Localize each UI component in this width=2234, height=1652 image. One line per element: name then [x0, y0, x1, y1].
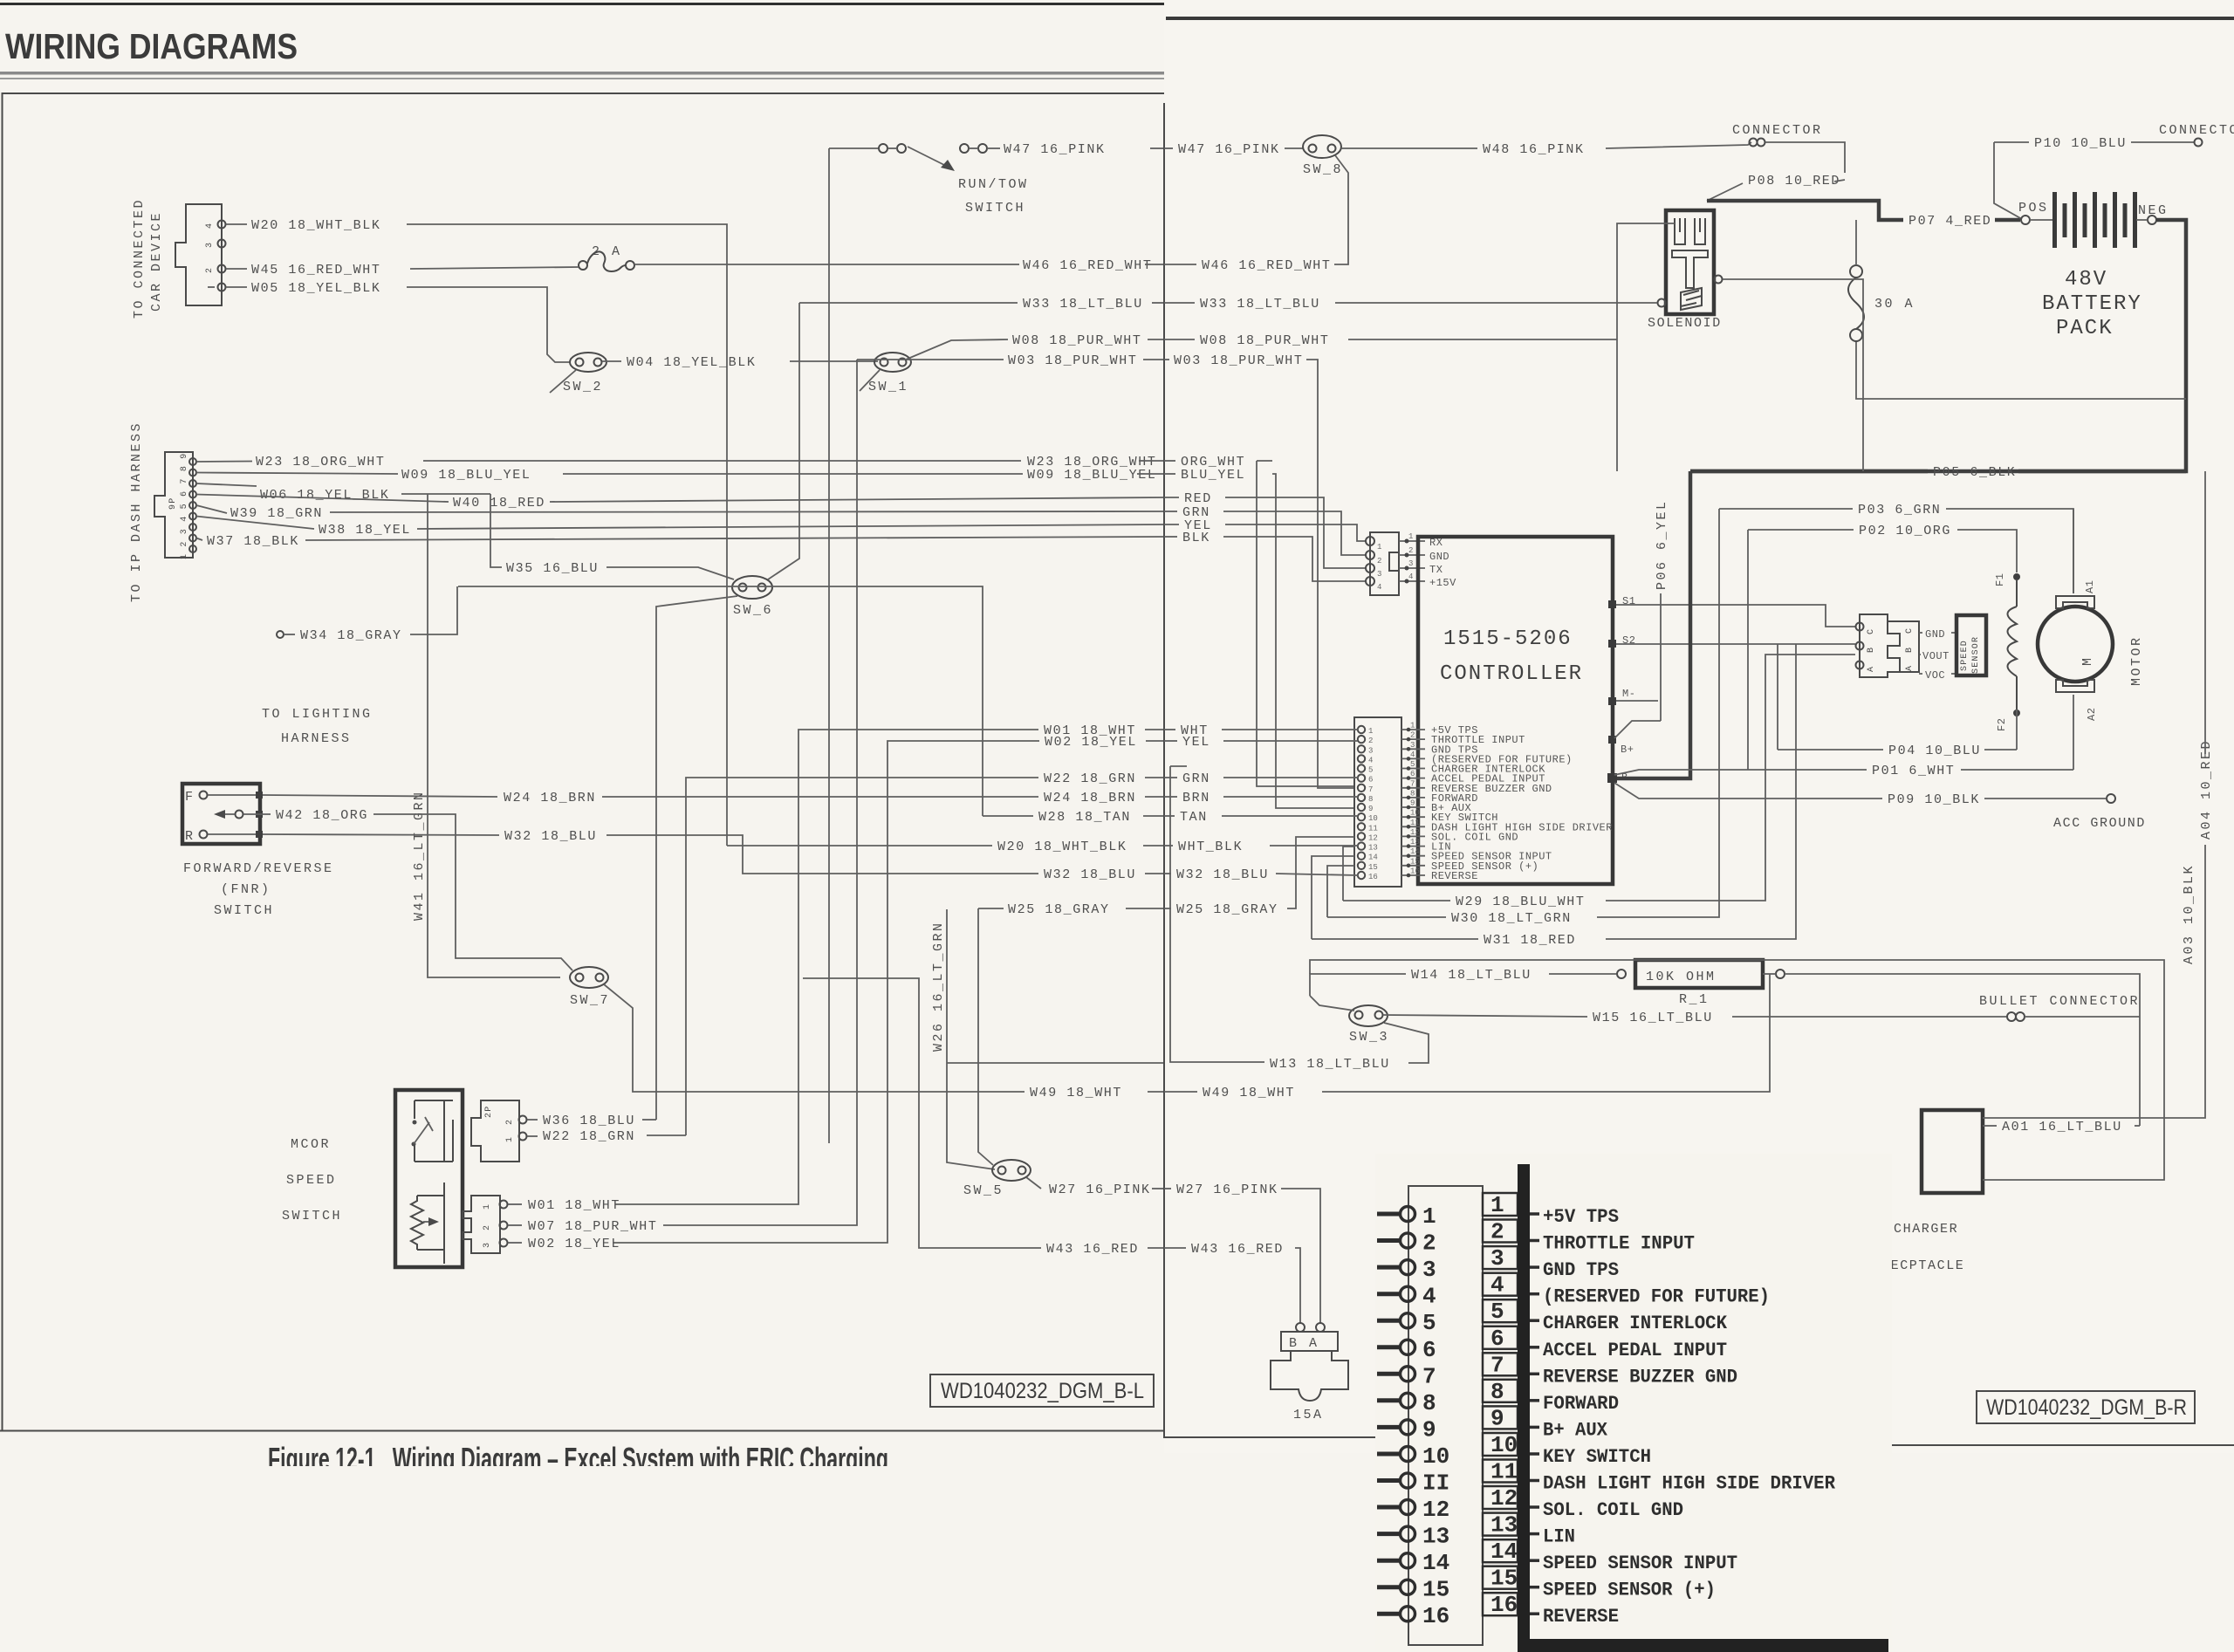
svg-text:SW_5: SW_5: [963, 1183, 1004, 1198]
svg-text:(FNR): (FNR): [221, 882, 271, 897]
svg-text:W38 18_YEL: W38 18_YEL: [319, 523, 411, 538]
svg-text:2: 2: [1408, 546, 1413, 555]
wire W26 bus: [947, 909, 995, 1169]
svg-text:9: 9: [1368, 805, 1373, 813]
wire W09: [196, 473, 398, 475]
wire W33 (right): [1164, 302, 1195, 304]
svg-text:W27 16_PINK: W27 16_PINK: [1176, 1182, 1278, 1197]
inset num box 3: [1483, 1245, 1539, 1272]
left diagram frame: [0, 93, 1164, 1431]
svg-text:5: 5: [1490, 1299, 1504, 1325]
wire A01: [1983, 1125, 1997, 1127]
svg-text:3: 3: [1368, 746, 1373, 755]
svg-text:ACCEL PEDAL INPUT: ACCEL PEDAL INPUT: [1543, 1340, 1727, 1361]
wire B- to P01: [1614, 770, 1867, 775]
wire RED: [1164, 497, 1179, 498]
wire SW6 right riser: [768, 303, 799, 579]
svg-text:1: 1: [505, 1136, 515, 1142]
svg-text:WHT_BLK: WHT_BLK: [1178, 840, 1243, 854]
wire W25 drop to SW_5: [978, 908, 993, 1165]
svg-text:SPEED SENSOR (+): SPEED SENSOR (+): [1543, 1580, 1716, 1601]
wire SW8 drop to W46: [1334, 155, 1348, 264]
wire W25 (right): [1164, 908, 1171, 909]
svg-text:6: 6: [1410, 770, 1415, 778]
svg-text:11: 11: [1410, 819, 1420, 827]
wire W32 (right): [1164, 873, 1171, 874]
motor M: [2038, 580, 2144, 721]
svg-text:W25 18_GRAY: W25 18_GRAY: [1008, 902, 1110, 917]
svg-text:GND: GND: [1429, 551, 1449, 563]
figure caption (clipped): [268, 1441, 888, 1477]
wire S2: [1616, 643, 1855, 645]
wire W07 bus: [663, 360, 857, 1225]
svg-text:A01 16_LT_BLU: A01 16_LT_BLU: [2002, 1120, 2122, 1134]
svg-text:P09 10_BLK: P09 10_BLK: [1888, 792, 1980, 807]
wire P06 riser: [1660, 593, 1662, 721]
wire W48: [1341, 147, 1477, 149]
inset num box 16: [1483, 1592, 1539, 1618]
svg-text:12: 12: [1410, 828, 1420, 837]
svg-text:SWITCH: SWITCH: [214, 903, 274, 918]
wire W36: [527, 1119, 538, 1121]
svg-text:15: 15: [1368, 863, 1378, 872]
wire W27 (right): [1164, 1188, 1171, 1189]
MCOR box: [395, 1090, 463, 1267]
wire W32 (left): [263, 834, 499, 835]
svg-text:TAN: TAN: [1180, 810, 1208, 825]
svg-text:SOL. COIL GND: SOL. COIL GND: [1543, 1499, 1683, 1521]
inset num box 13: [1483, 1512, 1539, 1539]
svg-text:W05 18_YEL_BLK: W05 18_YEL_BLK: [251, 281, 380, 296]
svg-text:3: 3: [1422, 1257, 1436, 1283]
svg-text:W43 16_RED: W43 16_RED: [1046, 1242, 1139, 1257]
svg-text:BLK: BLK: [1182, 531, 1210, 545]
wire W49 (right page): [1164, 1091, 1197, 1093]
svg-text:6: 6: [1490, 1326, 1504, 1352]
svg-text:W03 18_PUR_WHT: W03 18_PUR_WHT: [1174, 353, 1303, 368]
svg-text:+5V TPS: +5V TPS: [1543, 1206, 1619, 1228]
controller 16-pin block: [1354, 717, 1401, 887]
wire F2 to P04: [2016, 709, 2018, 750]
wire W46 (left page): [634, 264, 1019, 265]
connector 2P: [471, 1100, 527, 1162]
switch SW_2: [550, 353, 606, 394]
svg-text:P01 6_WHT: P01 6_WHT: [1872, 764, 1955, 778]
svg-text:14: 14: [1422, 1550, 1449, 1576]
wire W13 (left part): [947, 1062, 1163, 1064]
svg-text:W29 18_BLU_WHT: W29 18_BLU_WHT: [1456, 895, 1585, 909]
connector 9P TO IP DASH HARNESS: [129, 422, 196, 602]
svg-text:6: 6: [1422, 1337, 1436, 1363]
svg-text:REVERSE: REVERSE: [1431, 870, 1478, 882]
svg-text:HARNESS: HARNESS: [281, 731, 352, 746]
switch SW_5: [963, 1160, 1031, 1198]
controller pin 9: [1358, 799, 1471, 815]
inset pin 4: [1377, 1284, 1436, 1310]
wire ORG_WHT: [1164, 460, 1175, 462]
svg-text:1 2 3 4 5 6 7 8 9: 1 2 3 4 5 6 7 8 9: [180, 453, 189, 559]
controller pin stubs RX GND TX +15V: [1399, 532, 1456, 589]
label FORWARD/REVERSE (FNR) SWITCH: [183, 861, 334, 918]
svg-text:8: 8: [1410, 789, 1415, 798]
svg-text:F1: F1: [1994, 573, 2006, 586]
wire W40: [196, 495, 449, 503]
svg-text:1: 1: [1377, 543, 1381, 552]
inset pin 8: [1377, 1390, 1436, 1416]
switch RUN/TOW: [829, 144, 1029, 216]
wire W20: [226, 223, 247, 225]
inset num box 8: [1483, 1379, 1539, 1405]
label box WD1040232_DGM_B-L: [930, 1374, 1154, 1407]
wire to P08: [1765, 142, 1845, 173]
svg-text:10K OHM: 10K OHM: [1646, 970, 1717, 984]
wire W01 stub: [508, 1203, 522, 1205]
svg-text:16: 16: [1410, 867, 1420, 876]
svg-text:1: 1: [483, 1203, 492, 1210]
inset pin 1: [1377, 1203, 1436, 1230]
bus x950: [828, 148, 830, 1143]
svg-text:1: 1: [1410, 722, 1415, 730]
svg-text:12: 12: [1368, 833, 1378, 842]
switch SW_3: [1349, 1005, 1389, 1045]
svg-text:1: 1: [1408, 532, 1413, 541]
svg-text:W30 18_LT_GRN: W30 18_LT_GRN: [1451, 911, 1572, 926]
wire GRN: [1164, 511, 1177, 512]
svg-text:CONTROLLER: CONTROLLER: [1440, 662, 1583, 686]
svg-text:W07 18_PUR_WHT: W07 18_PUR_WHT: [528, 1219, 657, 1234]
svg-text:W02 18_YEL: W02 18_YEL: [528, 1237, 620, 1251]
svg-text:W09 18_BLU_YEL: W09 18_BLU_YEL: [401, 468, 531, 483]
connector RS232 4-pin: [1366, 532, 1399, 595]
wire W04: [602, 360, 621, 362]
wire W06 / W41 bus: [196, 483, 257, 486]
svg-text:W02 18_YEL: W02 18_YEL: [1045, 735, 1137, 750]
wire W28 TAN row: [983, 815, 1033, 817]
svg-text:7: 7: [1490, 1352, 1504, 1378]
charger receptacle box: [1922, 1110, 1983, 1193]
svg-text:W32 18_BLU: W32 18_BLU: [1176, 867, 1269, 882]
wire W24 (left): [263, 795, 497, 797]
svg-text:1515-5206: 1515-5206: [1443, 627, 1573, 651]
svg-text:C: C: [1905, 627, 1915, 634]
svg-text:2: 2: [205, 267, 215, 273]
labels GND VOUT VOC: [1919, 628, 1956, 682]
svg-text:W15 16_LT_BLU: W15 16_LT_BLU: [1593, 1011, 1713, 1025]
inset num box 14: [1483, 1539, 1539, 1565]
svg-text:1: 1: [1490, 1192, 1504, 1218]
svg-text:SW_8: SW_8: [1303, 162, 1343, 177]
svg-text:9P: 9P: [168, 497, 178, 510]
inset connector outline: [1408, 1186, 1483, 1645]
controller pin 5: [1358, 760, 1545, 776]
svg-text:4: 4: [1422, 1284, 1436, 1310]
inset pin 14: [1377, 1550, 1449, 1576]
wire W03 (left): [857, 359, 1004, 360]
svg-text:SPEED SENSOR INPUT: SPEED SENSOR INPUT: [1543, 1553, 1737, 1574]
svg-text:THROTTLE INPUT: THROTTLE INPUT: [1543, 1233, 1695, 1255]
svg-text:8: 8: [1422, 1390, 1436, 1416]
svg-text:A03 10_BLK: A03 10_BLK: [2182, 864, 2196, 964]
svg-text:4: 4: [1490, 1272, 1504, 1299]
fuse 30A: [1848, 220, 1915, 341]
wire W39: [196, 505, 227, 513]
svg-text:48V: 48V: [2065, 268, 2107, 291]
controller pin 11: [1358, 819, 1613, 834]
svg-text:BATTERY: BATTERY: [2042, 292, 2142, 316]
inset heavy bar vertical: [1518, 1164, 1530, 1646]
inset heavy bar bottom: [1518, 1639, 1888, 1652]
wire WHT_BLK: [1164, 845, 1173, 847]
svg-text:BRN: BRN: [1182, 791, 1210, 805]
controller pin 6: [1358, 770, 1545, 785]
svg-text:W41 16_LT_GRN: W41 16_LT_GRN: [412, 790, 427, 921]
controller post B+: [1608, 736, 1616, 744]
svg-text:CHARGER: CHARGER: [1894, 1222, 1958, 1237]
svg-text:VOUT: VOUT: [1922, 650, 1950, 662]
svg-text:4: 4: [1410, 751, 1415, 759]
svg-text:2P: 2P: [484, 1106, 494, 1118]
battery pack 48V: [2018, 192, 2169, 340]
svg-text:CHARGER INTERLOCK: CHARGER INTERLOCK: [1543, 1313, 1728, 1334]
svg-text:W04 18_YEL_BLK: W04 18_YEL_BLK: [627, 355, 756, 370]
svg-text:MOTOR: MOTOR: [2129, 635, 2144, 686]
svg-text:GND TPS: GND TPS: [1543, 1259, 1619, 1281]
double rule under title: [0, 72, 1164, 79]
FNR switch box: [182, 784, 263, 844]
svg-text:GND: GND: [1925, 628, 1945, 641]
svg-text:+15V: +15V: [1429, 577, 1456, 589]
wire solenoid feed: [1616, 339, 1618, 471]
svg-text:13: 13: [1368, 844, 1378, 853]
wire P10 10_BLU: [1994, 141, 2029, 143]
svg-text:W24 18_BRN: W24 18_BRN: [504, 791, 596, 805]
wire W37: [196, 538, 202, 541]
svg-text:2: 2: [1368, 737, 1373, 745]
svg-text:RUN/TOW: RUN/TOW: [958, 177, 1029, 192]
svg-text:B+: B+: [1621, 744, 1634, 756]
controller post M-: [1608, 697, 1616, 705]
wire A1: [2073, 509, 2074, 593]
svg-text:W08 18_PUR_WHT: W08 18_PUR_WHT: [1200, 333, 1329, 348]
svg-text:W20 18_WHT_BLK: W20 18_WHT_BLK: [251, 218, 380, 233]
controller pin 12: [1358, 828, 1518, 844]
svg-text:W27 16_PINK: W27 16_PINK: [1049, 1182, 1151, 1197]
wire P02 10_ORG: [1748, 530, 1854, 770]
controller 1515-5206 box: [1418, 537, 1613, 884]
svg-text:TX: TX: [1429, 564, 1443, 576]
wire A04 upper: [2204, 471, 2206, 754]
right page bottom border: [1164, 1437, 2234, 1445]
svg-text:10: 10: [1490, 1432, 1518, 1458]
svg-text:CAR DEVICE: CAR DEVICE: [149, 211, 164, 312]
svg-text:RED: RED: [1184, 491, 1212, 506]
svg-text:7: 7: [1422, 1363, 1436, 1389]
svg-text:P04 10_BLU: P04 10_BLU: [1888, 744, 1981, 758]
inset pin 2: [1377, 1230, 1436, 1257]
inset num box 7: [1483, 1352, 1539, 1378]
svg-text:C: C: [1867, 628, 1876, 634]
svg-text:SW_7: SW_7: [570, 993, 610, 1008]
wire NEG loop: [1690, 220, 2186, 471]
svg-text:W14 18_LT_BLU: W14 18_LT_BLU: [1411, 968, 1532, 983]
svg-text:W33 18_LT_BLU: W33 18_LT_BLU: [1200, 297, 1320, 312]
svg-text:ACC GROUND: ACC GROUND: [2053, 816, 2146, 831]
wire P07 thick: [1707, 201, 1903, 220]
svg-text:15A: 15A: [1293, 1408, 1324, 1422]
inset pin 16: [1377, 1603, 1449, 1629]
svg-text:SW_1: SW_1: [868, 380, 908, 394]
svg-text:WD1040232_DGM_B-L: WD1040232_DGM_B-L: [941, 1379, 1144, 1403]
wire W42: [243, 813, 271, 815]
svg-text:13: 13: [1410, 838, 1420, 847]
wire SW6 row to TAN: [458, 586, 983, 816]
right page top border: [1166, 17, 2234, 20]
svg-text:14: 14: [1490, 1539, 1518, 1565]
svg-text:TO IP DASH HARNESS: TO IP DASH HARNESS: [129, 422, 144, 602]
svg-text:KEY SWITCH: KEY SWITCH: [1543, 1446, 1651, 1468]
svg-text:16: 16: [1368, 873, 1378, 881]
svg-text:MCOR: MCOR: [291, 1137, 331, 1152]
svg-text:W03 18_PUR_WHT: W03 18_PUR_WHT: [1008, 353, 1137, 368]
connector 3P: [463, 1196, 508, 1253]
wire SW3 left: [1310, 996, 1354, 1011]
svg-text:10: 10: [1410, 809, 1420, 818]
svg-text:P10 10_BLU: P10 10_BLU: [2034, 136, 2127, 151]
inset pin 10: [1377, 1443, 1449, 1470]
svg-text:R: R: [185, 829, 195, 844]
switch SW_7: [570, 967, 610, 1008]
MCOR upper switch: [412, 1100, 454, 1162]
svg-text:F: F: [185, 790, 195, 805]
wire W22 bus: [686, 778, 1038, 1135]
fuse 15A: [1271, 1323, 1348, 1422]
inset num box 11: [1483, 1459, 1539, 1485]
svg-text:SW_6: SW_6: [733, 603, 773, 618]
wire GRN2: [1164, 777, 1177, 778]
wire W43 (right): [1164, 1247, 1186, 1249]
svg-text:BLU_YEL: BLU_YEL: [1181, 468, 1245, 483]
svg-text:P02 10_ORG: P02 10_ORG: [1859, 524, 1951, 538]
svg-text:W49 18_WHT: W49 18_WHT: [1203, 1086, 1295, 1100]
svg-text:16: 16: [1490, 1592, 1518, 1618]
svg-text:2: 2: [1422, 1230, 1436, 1257]
wire W45: [226, 268, 247, 270]
wire P03 6_GRN: [1719, 508, 1853, 510]
svg-text:M-: M-: [1622, 688, 1635, 700]
solenoid: [1648, 210, 1723, 331]
svg-text:GRN: GRN: [1182, 771, 1210, 786]
svg-text:W47 16_PINK: W47 16_PINK: [1004, 142, 1106, 157]
svg-text:W39 18_GRN: W39 18_GRN: [230, 506, 323, 521]
svg-text:8: 8: [1490, 1379, 1504, 1405]
svg-text:R_1: R_1: [1679, 992, 1710, 1007]
svg-text:W26 16_LT_GRN: W26 16_LT_GRN: [931, 921, 946, 1052]
svg-text:CONNECTOR: CONNECTOR: [2159, 123, 2234, 138]
inset background: [1375, 1154, 1892, 1652]
wire BLU_YEL: [1164, 473, 1175, 475]
svg-text:POS: POS: [2018, 201, 2049, 216]
label box WD1040232_DGM_B-R: [1977, 1391, 2195, 1423]
wire SW6 left drop: [656, 596, 737, 1120]
wire W46 (right): [1164, 264, 1196, 265]
svg-text:W35 16_BLU: W35 16_BLU: [506, 561, 599, 576]
svg-text:RECPTACLE: RECPTACLE: [1881, 1258, 1964, 1273]
svg-text:5: 5: [1410, 760, 1415, 769]
svg-text:W24 18_BRN: W24 18_BRN: [1044, 791, 1136, 805]
svg-text:5: 5: [1368, 766, 1373, 775]
wire B+ jog: [1614, 721, 1661, 738]
wire P05 6_BLK: [1690, 470, 1928, 474]
svg-text:W47 16_PINK: W47 16_PINK: [1178, 142, 1280, 157]
svg-text:W32 18_BLU: W32 18_BLU: [504, 829, 597, 844]
svg-text:W46 16_RED_WHT: W46 16_RED_WHT: [1023, 258, 1152, 273]
svg-text:W23 18_ORG_WHT: W23 18_ORG_WHT: [256, 455, 385, 470]
controller pin 10: [1358, 809, 1498, 825]
svg-text:3: 3: [1408, 559, 1413, 568]
inset num box 6: [1483, 1326, 1539, 1352]
wire W05: [226, 286, 247, 288]
svg-text:P05 6_BLK: P05 6_BLK: [1933, 465, 2016, 480]
svg-text:SW_2: SW_2: [563, 380, 603, 394]
svg-text:M: M: [2080, 655, 2095, 666]
svg-text:3: 3: [1377, 570, 1381, 579]
wire W30: [1327, 866, 1446, 917]
svg-text:SWITCH: SWITCH: [282, 1209, 342, 1224]
svg-text:W42 18_ORG: W42 18_ORG: [276, 808, 368, 823]
svg-text:11: 11: [1368, 824, 1378, 833]
svg-text:W08 18_PUR_WHT: W08 18_PUR_WHT: [1012, 333, 1141, 348]
wire W35: [490, 494, 502, 567]
svg-text:A1: A1: [2084, 580, 2096, 593]
controller pin 4: [1358, 751, 1573, 766]
svg-text:2: 2: [1377, 557, 1381, 566]
svg-text:W46 16_RED_WHT: W46 16_RED_WHT: [1202, 258, 1331, 273]
svg-text:FORWARD: FORWARD: [1543, 1393, 1619, 1415]
svg-text:B: B: [1905, 647, 1915, 653]
svg-text:W01 18_WHT: W01 18_WHT: [528, 1198, 620, 1213]
inset num box 15: [1483, 1566, 1539, 1592]
svg-text:4: 4: [1377, 583, 1381, 592]
svg-text:4: 4: [205, 223, 215, 229]
svg-text:PACK: PACK: [2056, 317, 2114, 340]
connector (right, single bullet): [2159, 123, 2234, 147]
svg-text:B+ AUX: B+ AUX: [1543, 1419, 1608, 1441]
wire W38: [196, 517, 314, 530]
svg-text:CONNECTOR: CONNECTOR: [1732, 123, 1823, 138]
wire BLK: [1164, 536, 1177, 538]
svg-text:REVERSE BUZZER GND: REVERSE BUZZER GND: [1543, 1366, 1737, 1388]
svg-text:WIRING DIAGRAMS: WIRING DIAGRAMS: [5, 26, 298, 66]
svg-text:14: 14: [1410, 847, 1420, 856]
svg-text:6: 6: [1368, 776, 1373, 785]
svg-text:15: 15: [1490, 1566, 1518, 1592]
svg-text:10: 10: [1422, 1443, 1449, 1470]
left page top rule: [0, 3, 1164, 5]
label TO LIGHTING HARNESS: [262, 707, 373, 746]
wire P04 10_BLU: [1778, 644, 1883, 750]
svg-text:16: 16: [1422, 1603, 1449, 1629]
connector (left, bullet pair): [1732, 123, 1823, 147]
inset pin 11: [1377, 1470, 1449, 1497]
wire W14: [1310, 974, 1406, 996]
resistor R_1 10K OHM: [1635, 960, 1785, 1007]
svg-text:10: 10: [1368, 814, 1378, 823]
svg-text:2: 2: [1410, 731, 1415, 740]
wire W33 (left): [799, 302, 1018, 304]
wire W31: [1312, 856, 1478, 939]
svg-text:B A: B A: [1289, 1336, 1319, 1351]
svg-text:W49 18_WHT: W49 18_WHT: [1030, 1086, 1122, 1100]
